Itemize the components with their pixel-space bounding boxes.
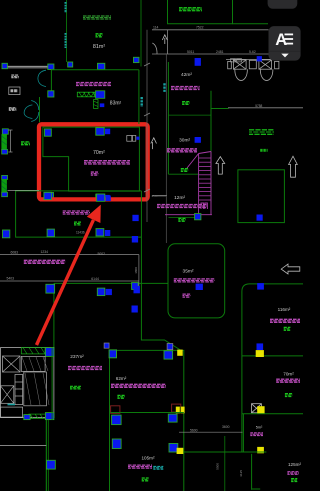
node: magenta label hot pot top (76, 82, 111, 84)
svg-text:6144: 6144 (91, 277, 99, 281)
wire: green vertical x=51 (50, 70, 52, 97)
node: green hatched counter (77, 91, 105, 109)
node: blue marker (195, 137, 201, 143)
node: shop name magenta in red box (84, 160, 130, 162)
wire: shop column green vertical x=168 (167, 62, 169, 174)
node: blue marker pair mid (97, 194, 105, 201)
svg-text:62m²: 62m² (116, 376, 127, 381)
node: yellow marker (256, 350, 264, 357)
node: store label left (9, 107, 16, 109)
node: rack label magenta (270, 318, 300, 320)
wire: white line y=445.4 (0, 444, 46, 446)
node: cyan dim text vertical corridor (140, 97, 142, 107)
node: sub label green (142, 477, 149, 479)
node: blue marker in red box bottom left (46, 193, 54, 200)
node: lab room box top right (168, 0, 233, 24)
node: blue marker corridor (132, 215, 138, 221)
wire: green line y=412.5 (111, 412, 184, 414)
node: tiny white boxes below dim (231, 59, 236, 62)
node: sub label green (74, 221, 81, 223)
svg-text:1234: 1234 (41, 250, 49, 254)
node: lab room label bright green (179, 7, 202, 9)
wire: green horizontal y=108.5 (211, 108, 229, 110)
node: small up arrow top (162, 35, 167, 44)
node: blue marker in red box top left (45, 129, 52, 136)
node: big blue marker (112, 415, 122, 425)
node: blue marker (98, 63, 105, 69)
node: blue marker corridor top (134, 57, 140, 62)
node: snack label cyan part (153, 466, 163, 468)
wire: green vertical x=54 (53, 283, 55, 347)
node: yellow marker (177, 350, 183, 356)
node: rack shop label magenta (24, 259, 65, 261)
svg-text:15m: 15m (151, 194, 157, 198)
node: small room box (9, 87, 20, 95)
node: sub label green (182, 101, 190, 103)
wire: white line left y=190.5 (8, 189, 40, 191)
node: dim tick 15m (152, 194, 167, 196)
wire: green room block below red box (16, 191, 142, 237)
svg-text:3600: 3600 (222, 425, 230, 429)
node: elevator block bottom left (1, 348, 54, 420)
node: clothes rack label magenta (276, 378, 300, 380)
node: warehouse label green (21, 141, 30, 143)
node: blue marker (112, 439, 121, 449)
wire: green vertical x=225 (224, 436, 226, 491)
node: yellow marker pair (176, 407, 185, 414)
wire: divider line y=174 (168, 173, 198, 175)
node: sub label green (181, 168, 189, 170)
node: blue marker (47, 229, 54, 237)
wire: white dimension line y=54 (152, 53, 269, 55)
node: staircase magenta (165, 152, 212, 215)
node: door arcs pair (38, 70, 46, 86)
node: yellow marker (257, 447, 264, 453)
node: floating AE button (269, 26, 301, 61)
node: sports shoes label magenta (63, 210, 90, 212)
node: blue marker (257, 283, 264, 290)
node: small fixtures top right of room (127, 136, 132, 142)
node: toilet pair baseline (226, 58, 285, 60)
node: big room corner bottom right (242, 284, 303, 452)
svg-text:6083: 6083 (11, 250, 19, 254)
node: room outline inside red box (43, 127, 139, 191)
node: wall double line top left (8, 65, 48, 67)
node: toilet fixture left (228, 60, 248, 81)
node: guard label magenta (250, 432, 263, 434)
wire: dim line y=254.6 (0, 254, 139, 256)
node: blue marker in red box top mid (96, 128, 104, 136)
wire: line y=217.4 (168, 216, 194, 218)
node: blue marker shop top (195, 58, 201, 66)
node: baby shop label magenta (174, 278, 215, 280)
node: blue marker in red box bottom mid (96, 194, 104, 201)
svg-text:237m²: 237m² (70, 354, 84, 360)
node: sub label green (291, 478, 297, 480)
node: blue marker (68, 62, 73, 67)
svg-text:105m²: 105m² (141, 456, 154, 461)
svg-text:35m²: 35m² (183, 269, 194, 275)
node: blue marker pair (97, 288, 105, 296)
wire: green line y=452 (184, 451, 267, 453)
wire: green vertical x=251.6 (251, 454, 253, 490)
node: dark red door box 1 (111, 406, 120, 414)
wire: green line y=355.9 (242, 355, 303, 357)
node: blue marker stair bottom (195, 214, 201, 220)
wire: green hall line y=70 (51, 69, 138, 71)
node: yellow marker (257, 406, 264, 413)
node: label magenta bottom right (287, 471, 299, 473)
node: atrium booth green rect (238, 170, 285, 223)
svg-text:83m²: 83m² (110, 101, 122, 107)
node: door arcs pair 2 (24, 105, 32, 119)
svg-text:1800: 1800 (134, 267, 138, 274)
wire: green double vertical bottom left (51, 348, 53, 420)
svg-text:12m²: 12m² (174, 195, 185, 201)
wire: green line y=413.7 (242, 413, 303, 415)
wire: white dim line y=108 right (228, 107, 303, 109)
svg-text:3125: 3125 (239, 470, 243, 477)
node: appliance label magenta (167, 148, 197, 150)
wire: green vertical wall x=39.5 (39, 97, 41, 122)
node: cosmetics label 2 magenta (111, 383, 166, 385)
node: rack label magenta long (157, 204, 207, 206)
node: sub label green (70, 385, 81, 387)
wire: corridor green vertical upper (140, 0, 142, 67)
node: radiator component 1 left edge (1, 129, 12, 154)
node: blue marker pair (96, 229, 104, 236)
node: up arrow right (289, 156, 298, 177)
wire: white dim vertical x=166 (165, 54, 167, 243)
wire: green line y=283.4 (54, 282, 168, 284)
node: baby shop rounded room (168, 244, 225, 318)
node: left arrow symbol (281, 264, 300, 274)
svg-text:5-62: 5-62 (249, 50, 256, 54)
node: dark red door box 2 (172, 404, 181, 412)
node: blue marker booth (257, 215, 263, 221)
node: blue marker (167, 344, 173, 350)
node: highlight red rectangle (39, 124, 148, 199)
svg-text:5m²: 5m² (256, 425, 263, 429)
svg-text:5002: 5002 (98, 252, 106, 256)
wire: green vertical x=243.4 (242, 414, 244, 452)
node: blue marker (48, 64, 54, 70)
wire: green horizontal y=115 (168, 114, 211, 116)
node: blue marker (2, 63, 7, 68)
svg-text:2481: 2481 (216, 50, 224, 54)
wire: white vertical between dim lines (167, 30, 169, 54)
svg-text:5758: 5758 (255, 104, 262, 108)
svg-text:42m²: 42m² (181, 72, 192, 78)
svg-text:5011: 5011 (187, 50, 194, 54)
wire: green vertical x=211 (210, 91, 212, 203)
node: atrium area small green (260, 149, 267, 152)
wire: corridor green vertical mid (138, 70, 140, 124)
node: blue marker (104, 343, 109, 348)
node: floating mini button top right (268, 0, 298, 9)
node: door arc left of red box (31, 101, 39, 122)
node: red arrow annotation (37, 205, 101, 345)
node: atrium label bright green (249, 129, 274, 131)
node: blue marker corridor 2 (132, 236, 138, 243)
node: bedroom label (11, 74, 18, 76)
svg-text:7522: 7522 (196, 26, 204, 30)
svg-text:11436: 11436 (76, 230, 85, 234)
node: up arrow mid (216, 157, 225, 175)
node: blue marker (46, 284, 55, 293)
wire: white dim vertical corridor (146, 30, 148, 222)
node: sub label magenta in red box (91, 171, 99, 173)
wire: green line y=489 (252, 488, 261, 490)
node: blue marker (109, 350, 116, 358)
svg-text:5500: 5500 (216, 463, 220, 470)
node: apartment room label green (83, 15, 111, 17)
node: door arc top middle (152, 43, 157, 54)
node: cosmetics label magenta (68, 366, 102, 368)
node: blue marker left (3, 230, 10, 238)
node: yellow marker (177, 448, 184, 454)
svg-text:81m²: 81m² (93, 44, 105, 50)
node: blue marker corridor low2 (132, 306, 138, 313)
node: sub label green (284, 326, 291, 328)
node: blue marker (168, 414, 177, 422)
svg-text:125m²: 125m² (288, 462, 301, 467)
node: sub label green (117, 394, 125, 396)
node: snack label magenta (128, 464, 152, 466)
node: crossed box door (252, 404, 262, 413)
node: sub label magenta (183, 293, 191, 295)
node: radiator component 2 left edge (1, 175, 7, 196)
node: blue marker corridor low (134, 286, 140, 293)
node: toilet fixture right (249, 60, 279, 81)
node: blue marker (169, 444, 178, 453)
node: apartment sub label bright green (96, 33, 103, 35)
node: blue marker (132, 283, 139, 290)
svg-text:116m²: 116m² (278, 307, 291, 312)
svg-text:5403: 5403 (7, 277, 15, 281)
wire: dim line y=281 (0, 280, 139, 282)
svg-text:70m²: 70m² (283, 372, 294, 377)
node: blue marker (44, 192, 52, 199)
node: blue marker (257, 343, 264, 350)
wire: white dim vertical x=139 (138, 255, 140, 290)
node: shoe shop label magenta (171, 86, 200, 88)
node: cyan dim text vertical top (65, 2, 67, 13)
node: blue marker between toilets (257, 56, 262, 61)
svg-text:70m²: 70m² (93, 150, 105, 156)
node: sub label green (285, 393, 292, 395)
node: blue marker (47, 460, 56, 469)
wire: left vertical wall line top (66, 0, 68, 62)
node: blue marker (48, 91, 54, 97)
node: partial up arrow left edge (151, 138, 157, 149)
wire: room 62 boundary (141, 191, 183, 491)
node: blue marker (196, 284, 203, 290)
svg-text:5600: 5600 (190, 428, 198, 432)
svg-text:114: 114 (153, 26, 159, 30)
wire: dim line y=432 bottom (179, 431, 243, 433)
node: cyan vertical dim (163, 83, 165, 92)
svg-text:30m²: 30m² (179, 138, 190, 144)
node: blue marker (164, 351, 173, 359)
node: sub label green (178, 217, 186, 219)
wire: white dimension line y=30 (152, 29, 269, 31)
wire: green corner x=112 (110, 350, 179, 491)
